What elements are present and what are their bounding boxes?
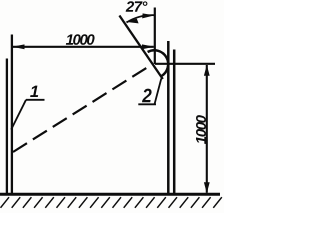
- label 2 underline: [138, 103, 156, 105]
- svg-text:27°: 27°: [125, 0, 148, 16]
- svg-text:2: 2: [141, 84, 152, 106]
- horizontal dimension right arrowhead: [142, 44, 154, 49]
- horizontal reference line at pivot height: [155, 63, 215, 65]
- right post left line: [167, 41, 170, 194]
- semicircular bob (item 2): [148, 50, 169, 76]
- slanted pendulum rod (27 deg line): [119, 16, 162, 80]
- right post right line: [173, 50, 176, 194]
- horizontal dimension line 1000: [13, 46, 154, 48]
- angle arc right arrowhead: [142, 13, 154, 18]
- ground line: [0, 193, 220, 196]
- angle arc left arrowhead: [125, 19, 138, 24]
- left post (item 1) outer line: [6, 59, 8, 194]
- angle dimension arc: [127, 15, 155, 22]
- horizontal dimension left arrowhead: [12, 44, 24, 49]
- svg-text:1000: 1000: [193, 114, 210, 144]
- dashed diagonal line: [13, 65, 151, 152]
- vertical dimension bottom arrowhead: [204, 182, 210, 193]
- label 1 leader line to left post: [11, 100, 26, 130]
- label 1 underline: [26, 99, 45, 101]
- vertical dimension line 1000: [206, 65, 208, 193]
- label 2 leader line to bob: [155, 79, 162, 105]
- vertical dimension top arrowhead: [204, 65, 210, 76]
- svg-text:1: 1: [30, 83, 39, 101]
- left post (item 1) inner line / dimension extension: [11, 35, 13, 194]
- vertical reference line: [154, 8, 156, 65]
- svg-text:1000: 1000: [66, 32, 96, 49]
- ground hatching: [1, 197, 222, 208]
